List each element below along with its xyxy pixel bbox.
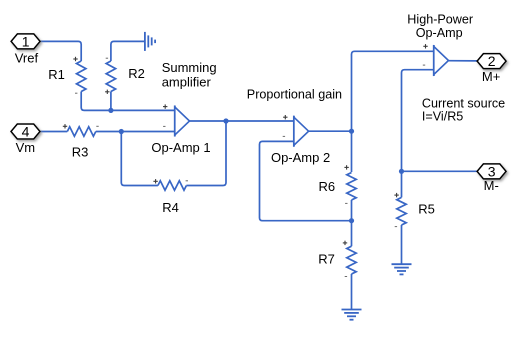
svg-text:I=Vi/R5: I=Vi/R5 — [422, 109, 463, 123]
svg-text:High-Power: High-Power — [407, 12, 473, 26]
svg-text:M-: M- — [484, 178, 499, 193]
svg-text:R3: R3 — [72, 144, 89, 159]
svg-text:3: 3 — [488, 163, 496, 179]
svg-text:4: 4 — [22, 124, 30, 140]
svg-text:R5: R5 — [418, 201, 435, 216]
svg-text:1: 1 — [22, 33, 30, 49]
svg-text:M+: M+ — [482, 69, 500, 84]
svg-text:Vref: Vref — [15, 51, 39, 66]
svg-text:R6: R6 — [318, 179, 335, 194]
svg-text:Current source: Current source — [422, 97, 505, 111]
svg-text:R2: R2 — [128, 66, 145, 81]
svg-text:R4: R4 — [162, 200, 179, 215]
svg-text:Proportional gain: Proportional gain — [247, 88, 342, 102]
svg-text:2: 2 — [488, 53, 496, 69]
svg-text:Op-Amp 2: Op-Amp 2 — [271, 150, 330, 165]
svg-text:Op-Amp 1: Op-Amp 1 — [151, 140, 210, 155]
svg-text:R7: R7 — [318, 252, 335, 267]
svg-text:Summing: Summing — [162, 60, 217, 75]
svg-text:R1: R1 — [48, 67, 65, 82]
svg-text:Op-Amp: Op-Amp — [416, 26, 463, 40]
svg-text:Vm: Vm — [16, 140, 36, 155]
svg-text:amplifier: amplifier — [162, 75, 212, 90]
